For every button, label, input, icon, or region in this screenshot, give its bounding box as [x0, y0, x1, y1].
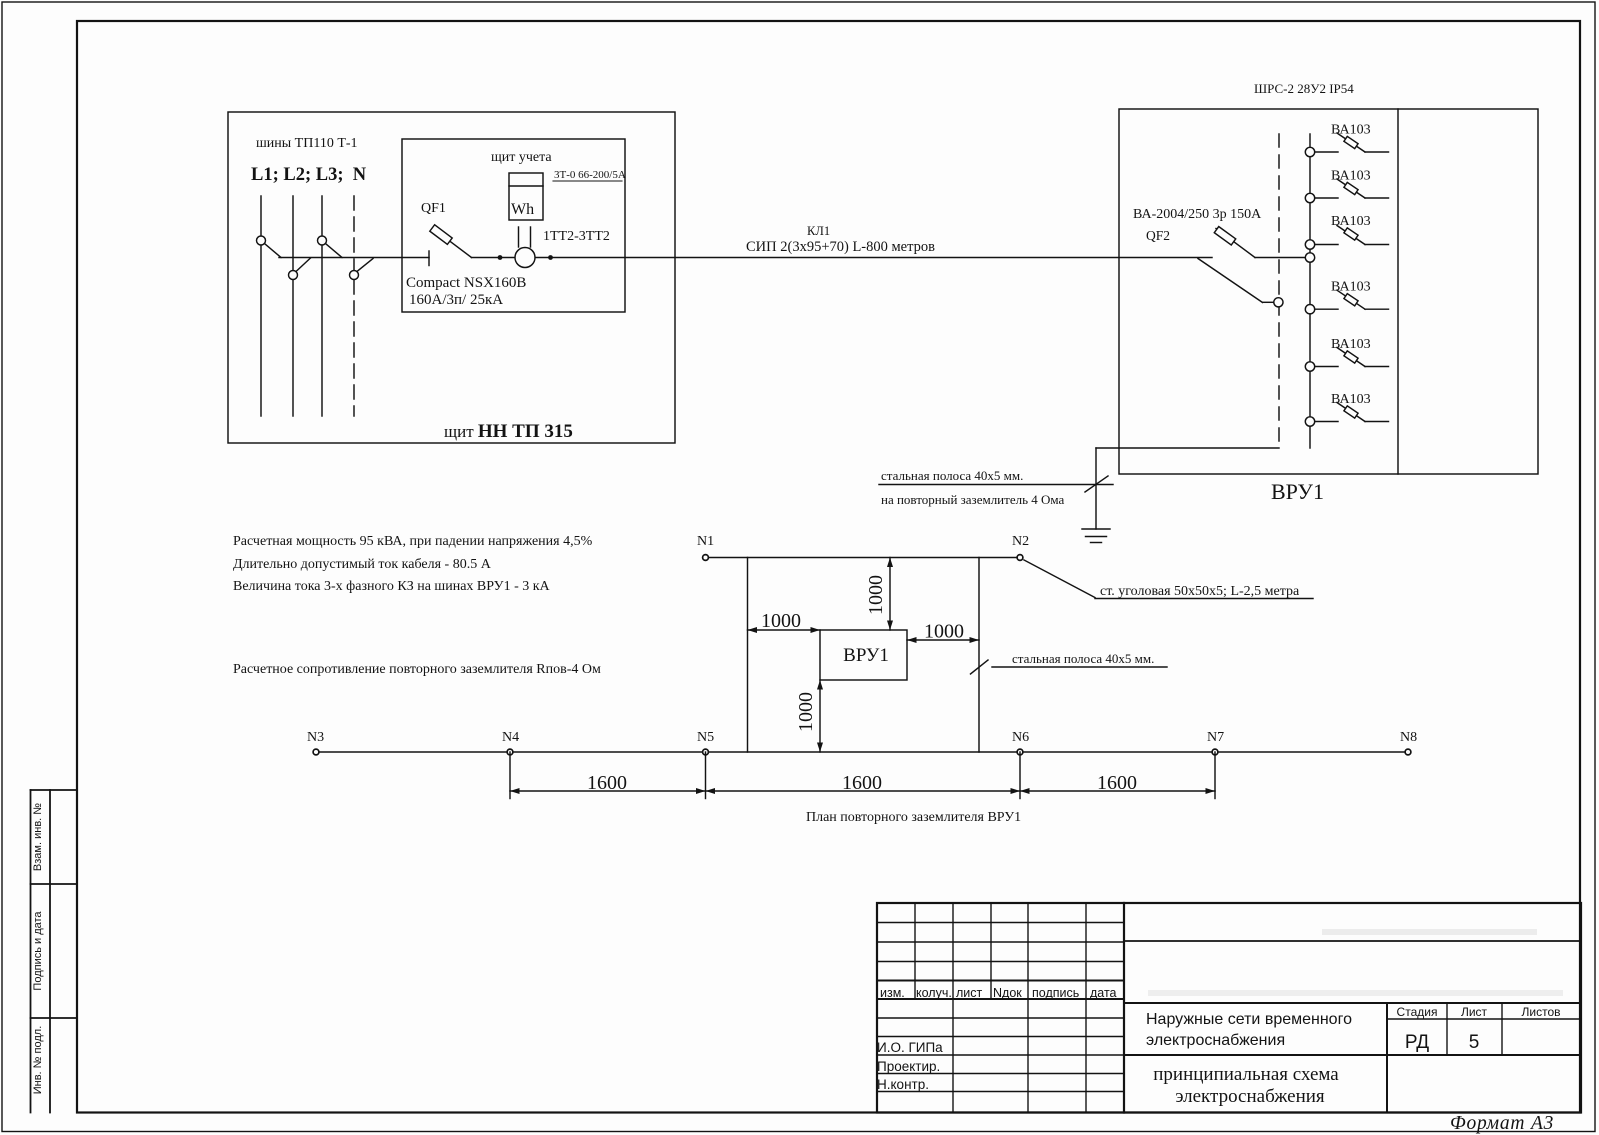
six feeder breakers ВА103 [1305, 133, 1388, 426]
svg-text:И.О. ГИПа: И.О. ГИПа [877, 1040, 943, 1055]
svg-text:электроснабжения: электроснабжения [1146, 1032, 1285, 1049]
svg-text:Наружные сети временного: Наружные сети временного [1146, 1011, 1352, 1028]
svg-text:стальная полоса 40х5 мм.: стальная полоса 40х5 мм. [881, 468, 1023, 483]
svg-text:Лист: Лист [1461, 1005, 1488, 1019]
wire right strip vertical [978, 558, 980, 753]
side margin table [31, 789, 78, 791]
bus N (dashed) [353, 196, 355, 416]
svg-text:1000: 1000 [795, 692, 817, 732]
svg-text:1ТТ2-3ТТ2: 1ТТ2-3ТТ2 [543, 229, 610, 244]
svg-text:Wh: Wh [511, 201, 534, 218]
svg-text:лист: лист [956, 986, 983, 1000]
svg-text:L1; L2; L3; N: L1; L2; L3; N [251, 165, 367, 185]
node N1 [703, 555, 709, 561]
wire N1-N2 top strip [706, 557, 1021, 559]
dim arrows [887, 558, 893, 568]
feeder breaker ВА103 #4 [1305, 305, 1314, 314]
svg-text:1000: 1000 [761, 610, 801, 632]
svg-text:ВА103: ВА103 [1331, 280, 1371, 295]
revision table verticals lower [952, 999, 954, 1113]
revision table rows [877, 922, 1124, 924]
title block outer [877, 903, 1581, 1113]
wire bottom earthing strip N3-N8 [316, 751, 1408, 753]
svg-text:3Т-0 66-200/5А: 3Т-0 66-200/5А [554, 169, 626, 181]
svg-text:электроснабжения: электроснабжения [1175, 1086, 1325, 1107]
bus L3 [321, 196, 323, 416]
dim line 1000 bottom [819, 680, 821, 752]
svg-text:КЛ1: КЛ1 [807, 224, 830, 238]
svg-text:Расчетная мощность 95 кВА, при: Расчетная мощность 95 кВА, при падении н… [233, 534, 593, 549]
wire PEN exit bottom [1096, 447, 1279, 449]
underline стальная полоса [879, 484, 1113, 486]
metering cabinet box щит учета [402, 139, 625, 312]
N conductor dashed [1278, 134, 1280, 448]
svg-text:Расчетное сопротивление повтор: Расчетное сопротивление повторного зазем… [233, 662, 601, 677]
dim line 1000 top [889, 558, 891, 631]
breaker QF2 body rect [1214, 227, 1235, 245]
disconnector blade L2 [296, 258, 311, 272]
feeder breaker ВА103 #5 [1305, 362, 1314, 371]
disconnector contact N [350, 271, 359, 280]
svg-text:Величина тока 3-х фазного КЗ н: Величина тока 3-х фазного КЗ на шинах ВР… [233, 579, 551, 594]
svg-text:N4: N4 [502, 730, 519, 745]
svg-text:Формат А3: Формат А3 [1450, 1113, 1554, 1134]
junction dot right of CT [548, 255, 553, 260]
enclosure box щит НН ТП 315 [228, 112, 675, 443]
svg-text:Взам. инв. №: Взам. инв. № [32, 803, 44, 871]
svg-text:колуч.: колуч. [916, 986, 952, 1000]
disconnector contact L1 [257, 236, 266, 245]
bus bar ВРУ1 [1309, 134, 1311, 448]
feeder breaker ВА103 #2 [1305, 193, 1314, 202]
switch blade lower to N [1198, 259, 1263, 303]
breaker QF1 body rect [430, 225, 452, 245]
svg-text:Проектир.: Проектир. [877, 1059, 940, 1074]
dim line 1000 right [907, 639, 979, 641]
wire main line from QF1 to ШРС [472, 257, 1213, 259]
extension line N6 [1019, 752, 1021, 799]
svg-text:N5: N5 [697, 730, 714, 745]
wire down to earth [1095, 448, 1097, 529]
svg-text:подпись: подпись [1032, 986, 1079, 1000]
meter Wh box [509, 173, 543, 220]
extension line N7 [1214, 752, 1216, 799]
feeder breaker ВА103 #3 [1305, 240, 1314, 249]
node N2 [1017, 555, 1023, 561]
svg-text:ст. уголовая 50х50х5; L-2,5 ме: ст. уголовая 50х50х5; L-2,5 метра [1100, 584, 1300, 599]
svg-text:Листов: Листов [1522, 1005, 1561, 1019]
svg-text:ВРУ1: ВРУ1 [1271, 479, 1324, 504]
svg-text:Nдок: Nдок [993, 986, 1022, 1000]
svg-text:Длительно допустимый ток кабел: Длительно допустимый ток кабеля - 80.5 А [233, 557, 492, 572]
svg-text:QF1: QF1 [421, 201, 446, 216]
svg-text:N2: N2 [1012, 534, 1029, 549]
svg-text:N3: N3 [307, 730, 324, 745]
bus L2 [292, 196, 294, 416]
svg-text:ВА103: ВА103 [1331, 392, 1371, 407]
svg-text:1600: 1600 [587, 772, 627, 794]
breaker QF1 blade [433, 229, 472, 258]
right part verticals [1386, 1003, 1388, 1113]
dim line 1600 spans [510, 790, 1215, 792]
node N6 [1017, 749, 1023, 755]
ground symbol [1082, 528, 1110, 530]
faint scan artifacts [1322, 929, 1537, 935]
revision table verticals upper [914, 903, 916, 999]
svg-text:Стадия: Стадия [1397, 1005, 1438, 1019]
wire QF2 to bus [1255, 257, 1306, 259]
svg-text:шины ТП110 Т-1: шины ТП110 Т-1 [256, 136, 358, 151]
svg-text:N8: N8 [1400, 730, 1417, 745]
svg-text:N6: N6 [1012, 730, 1029, 745]
svg-text:дата: дата [1090, 986, 1117, 1000]
svg-text:щит НН ТП 315: щит НН ТП 315 [444, 421, 573, 442]
cabinet box ШРС-2 [1119, 109, 1538, 474]
junction dot left of CT [498, 255, 503, 260]
svg-text:План повторного заземлителя ВР: План повторного заземлителя ВРУ1 [806, 810, 1021, 825]
dim line 1000 left [748, 629, 821, 631]
svg-text:160А/3п/ 25кА: 160А/3п/ 25кА [409, 292, 503, 308]
wire stub to N contact [1263, 301, 1274, 303]
contact circle on N line [1274, 298, 1283, 307]
svg-text:стальная полоса 40х5 мм.: стальная полоса 40х5 мм. [1012, 651, 1154, 666]
svg-text:ВА103: ВА103 [1331, 169, 1371, 184]
svg-text:ВА103: ВА103 [1331, 123, 1371, 138]
disconnector blade L3 [326, 244, 343, 258]
disconnector contact L3 [318, 236, 327, 245]
extension line N5 [705, 752, 707, 799]
svg-text:Подпись и дата: Подпись и дата [32, 911, 44, 991]
leader slash on earth wire [1085, 476, 1108, 492]
feeder breaker ВА103 #6 [1305, 417, 1314, 426]
disconnector contact L2 [289, 271, 298, 280]
svg-text:ВА103: ВА103 [1331, 214, 1371, 229]
disconnector blade L1 [265, 244, 282, 258]
svg-text:1000: 1000 [865, 575, 887, 615]
node bus-QF2 connection [1305, 253, 1314, 262]
svg-text:1000: 1000 [924, 621, 964, 643]
svg-text:ВРУ1: ВРУ1 [843, 645, 889, 666]
CT 1TT2-3TT2 circle [515, 248, 535, 268]
breaker QF2 blade upper [1216, 229, 1255, 258]
node N7 [1212, 749, 1218, 755]
svg-text:РД: РД [1405, 1032, 1429, 1053]
node N3 [313, 749, 319, 755]
underline of CT label [553, 180, 622, 182]
wire main line left segment [279, 257, 429, 259]
svg-text:5: 5 [1469, 1032, 1480, 1053]
svg-text:ВА-2004/250 3р 150А: ВА-2004/250 3р 150А [1133, 207, 1262, 222]
svg-text:1600: 1600 [1097, 772, 1137, 794]
svg-text:ВА103: ВА103 [1331, 337, 1371, 352]
svg-text:Н.контр.: Н.контр. [877, 1077, 929, 1092]
svg-text:ШРС-2 28У2 IP54: ШРС-2 28У2 IP54 [1254, 81, 1354, 96]
CT secondary wires [518, 227, 520, 247]
box ВРУ1 on plan [820, 630, 907, 680]
leader стальная полоса plan [992, 666, 1167, 668]
svg-text:на повторный заземлитель 4 Ома: на повторный заземлитель 4 Ома [881, 492, 1065, 507]
breaker QF1 fixed contact [428, 251, 430, 266]
node N4 [507, 749, 513, 755]
extension line N4 [509, 752, 511, 799]
node N5 [703, 749, 709, 755]
svg-text:Compact NSX160B: Compact NSX160B [406, 275, 526, 291]
disconnector blade N [357, 259, 373, 272]
svg-text:изм.: изм. [880, 986, 905, 1000]
svg-text:N7: N7 [1207, 730, 1224, 745]
cabinet inner divider [1397, 109, 1399, 474]
svg-text:щит учета: щит учета [491, 150, 552, 165]
leader from N2 [1024, 560, 1095, 598]
svg-text:1600: 1600 [842, 772, 882, 794]
right part horizontals [1124, 940, 1581, 942]
bus L1 [260, 196, 262, 416]
svg-text:принципиальная схема: принципиальная схема [1153, 1064, 1339, 1085]
svg-text:Инв. № подл.: Инв. № подл. [32, 1026, 44, 1095]
wire left strip vertical [747, 558, 749, 753]
node N8 [1405, 749, 1411, 755]
svg-text:N1: N1 [697, 534, 714, 549]
svg-text:СИП 2(3х95+70) L-800 метров: СИП 2(3х95+70) L-800 метров [746, 239, 935, 255]
feeder breaker ВА103 #1 [1305, 147, 1314, 156]
svg-text:QF2: QF2 [1146, 228, 1170, 243]
